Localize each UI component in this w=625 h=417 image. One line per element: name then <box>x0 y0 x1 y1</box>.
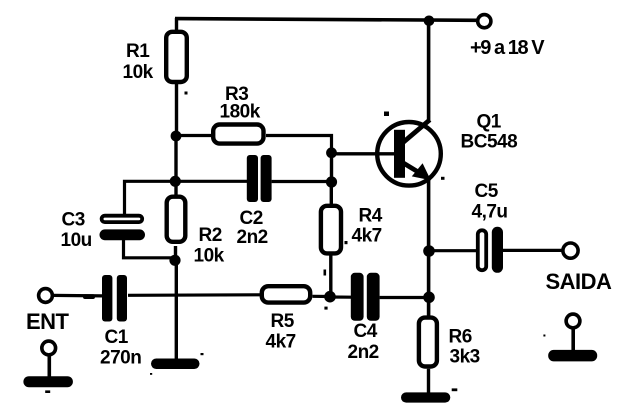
capacitor C2 left plate <box>247 155 258 202</box>
wire R1 top stub <box>175 18 178 31</box>
svg-text:180k: 180k <box>220 102 261 123</box>
stray mark left of SAIDA ground <box>543 335 545 337</box>
resistor R3 <box>213 125 263 144</box>
wire blob on ENT lead <box>83 294 95 299</box>
svg-text:R2: R2 <box>199 225 222 246</box>
node base junction top <box>326 147 337 158</box>
wire base node to C2 node <box>330 153 333 182</box>
wire node D to C4 <box>330 295 352 298</box>
resistor R1 <box>166 32 187 82</box>
wire R4 bottom lead to node D <box>329 256 332 298</box>
svg-text:10k: 10k <box>194 246 225 267</box>
node C (R2/C3 ground junction) <box>169 255 180 266</box>
capacitor C5 left plate <box>478 230 486 270</box>
capacitor C1 right plate <box>117 275 127 322</box>
wire R5 right lead <box>313 295 331 298</box>
wire C4 right lead to emitter column <box>380 296 429 299</box>
svg-text:270n: 270n <box>100 348 141 369</box>
svg-text:2n2: 2n2 <box>237 227 268 248</box>
wire C2 left lead <box>175 180 248 183</box>
wire R1 bottom to node A <box>175 84 178 138</box>
resistor R6 <box>419 318 437 367</box>
node E (emitter/C5 junction) <box>423 245 435 257</box>
capacitor C4 left plate <box>351 273 364 321</box>
capacitor C3 bottom plate <box>100 229 146 240</box>
svg-text:4k7: 4k7 <box>266 332 296 353</box>
svg-text:R4: R4 <box>359 206 383 227</box>
wire base lead to transistor <box>332 152 396 155</box>
stray mark below ENT ground <box>45 390 50 393</box>
resistor R5 <box>262 286 310 302</box>
node supply junction <box>424 15 435 26</box>
wire C5 to SAIDA <box>503 249 563 252</box>
wire emitter down column <box>427 179 431 317</box>
node base junction C2 <box>326 176 337 187</box>
wire R3 right lead to base column <box>266 136 332 154</box>
wire base column down to R4 <box>330 182 333 205</box>
stray mark below middle ground <box>150 373 152 375</box>
resistor R2 <box>167 197 186 242</box>
svg-text:C5: C5 <box>475 181 499 202</box>
ground bar below R6 <box>401 392 450 402</box>
svg-text:4,7u: 4,7u <box>472 202 508 223</box>
svg-text:ENT: ENT <box>26 309 70 334</box>
ground terminal below SAIDA <box>548 314 597 361</box>
capacitor C4 right plate <box>367 273 380 321</box>
svg-text:4k7: 4k7 <box>352 226 382 247</box>
wire node E to C5 <box>429 249 477 252</box>
svg-text:R5: R5 <box>271 311 295 332</box>
node A (R1/R3 junction) <box>171 131 182 142</box>
node F (emitter/C4/R6 junction) <box>423 292 435 304</box>
capacitor C5 right plate <box>492 227 503 273</box>
svg-text:3k3: 3k3 <box>450 347 480 368</box>
stray mark below node D <box>324 307 327 310</box>
svg-text:10k: 10k <box>123 62 154 83</box>
svg-text:2n2: 2n2 <box>348 342 379 363</box>
svg-text:Q1: Q1 <box>477 112 502 133</box>
stray mark near R6 ground <box>452 388 458 391</box>
ground bar middle <box>151 359 200 370</box>
wire R2 top stub <box>174 181 177 196</box>
stray mark near transistor top <box>384 112 389 117</box>
svg-text:R6: R6 <box>449 327 472 348</box>
wire C1 to R5 <box>128 293 260 297</box>
terminal +V <box>478 15 491 28</box>
stray mark near R1 bottom <box>185 92 188 95</box>
capacitor C3 top plate <box>102 216 143 222</box>
svg-text:BC548: BC548 <box>461 132 518 153</box>
terminal ENT <box>39 289 53 303</box>
wire R3 left lead <box>176 134 212 137</box>
svg-text:+9 a 18 V: +9 a 18 V <box>470 37 545 59</box>
capacitor C1 left plate <box>102 275 112 322</box>
svg-text:C1: C1 <box>105 327 129 348</box>
wire ENT to C1 <box>53 294 102 298</box>
wire R2 bottom stub <box>174 246 177 260</box>
terminal SAIDA <box>563 243 578 258</box>
wire C3 bottom lead to node C <box>124 240 176 260</box>
stray mark near middle ground <box>201 353 204 355</box>
stray mark left of R4 value <box>345 241 348 244</box>
wire top supply rail <box>175 19 478 21</box>
wire node C down to ground <box>175 260 178 360</box>
svg-text:10u: 10u <box>61 230 92 251</box>
svg-text:SAIDA: SAIDA <box>546 269 613 294</box>
svg-text:C3: C3 <box>62 210 85 231</box>
resistor R4 <box>321 206 341 254</box>
wire collector up to supply rail <box>427 20 431 123</box>
stray mark right of emitter arrow <box>441 177 445 180</box>
wire R6 bottom stub <box>427 369 430 394</box>
svg-text:C2: C2 <box>240 208 263 229</box>
wire C2 right lead <box>272 180 332 183</box>
svg-text:C4: C4 <box>354 321 378 342</box>
svg-text:R1: R1 <box>126 41 150 62</box>
wire node B to C3 top <box>125 181 176 215</box>
capacitor C2 right plate <box>261 155 272 202</box>
node D (R5/R4/C4 junction) <box>324 291 336 303</box>
stray mark above node D <box>324 270 327 276</box>
wire node A down to node B <box>174 136 177 182</box>
transistor Q1 <box>377 120 441 186</box>
ground terminal below ENT <box>23 341 73 387</box>
node B (R2 top / C2 / C3 junction) <box>170 176 181 187</box>
